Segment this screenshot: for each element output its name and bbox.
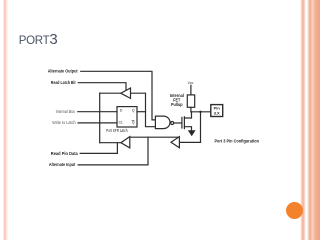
svg-text:CL: CL (119, 121, 124, 125)
svg-text:Q: Q (132, 108, 135, 112)
svg-text:Read Latch Bit: Read Latch Bit (51, 80, 76, 85)
svg-text:Write to Latch: Write to Latch (52, 120, 76, 125)
svg-text:Internal Bus: Internal Bus (56, 109, 76, 114)
svg-text:3.X: 3.X (214, 111, 220, 116)
svg-text:Pullup: Pullup (171, 102, 183, 107)
svg-text:Pin: Pin (214, 105, 221, 110)
svg-text:Port SFR Latch: Port SFR Latch (106, 128, 128, 133)
svg-text:D: D (120, 108, 123, 112)
svg-text:Port 3 Pin Configuration: Port 3 Pin Configuration (214, 138, 259, 143)
svg-text:Alternate Output: Alternate Output (48, 68, 78, 73)
svg-text:Alternate Input: Alternate Input (49, 162, 76, 167)
svg-text:Read Pin Data: Read Pin Data (51, 151, 79, 156)
svg-text:Vcc: Vcc (188, 81, 194, 85)
svg-text:Q: Q (132, 121, 135, 125)
